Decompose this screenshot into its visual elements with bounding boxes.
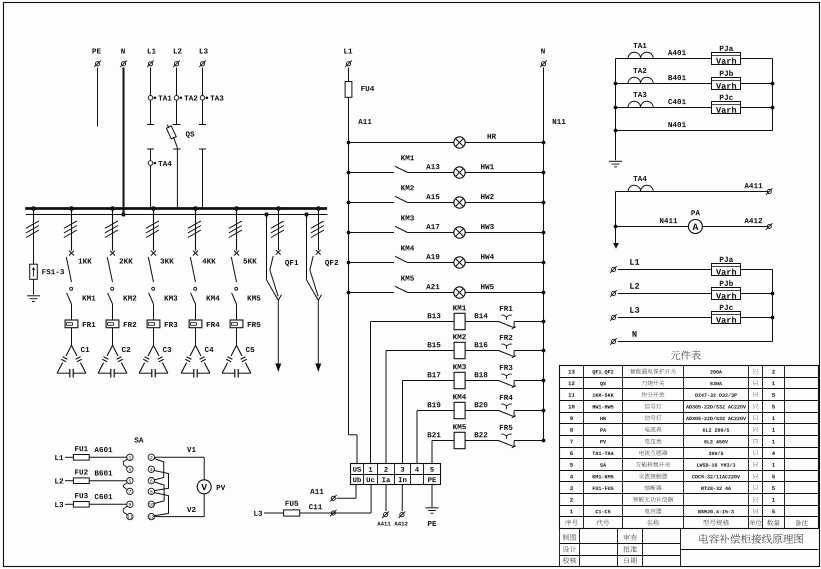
wire A601 <box>89 447 127 457</box>
node L1 terminal (control) <box>344 48 352 67</box>
isolation slashes branch 1 <box>64 221 77 238</box>
wire control left rail <box>349 97 358 464</box>
node A15 <box>426 194 439 199</box>
capacitor C3 (delta) <box>139 345 171 377</box>
wire control left rail upper <box>348 68 350 82</box>
node A411 terminal <box>766 188 773 195</box>
wire FR2 to rail <box>514 349 545 353</box>
ground (meter section) <box>609 161 622 167</box>
node L3 (SA feed) <box>55 502 63 507</box>
wire L3 lower <box>199 149 206 209</box>
node A19 <box>426 254 439 259</box>
wire L2 meter row <box>618 293 773 295</box>
lamp HW5 <box>454 284 494 298</box>
wire HW2 rung <box>347 201 546 205</box>
isolation slashes branch 4 <box>188 221 201 238</box>
junction QF2 phase on bus <box>316 206 321 211</box>
wire meter left rail (TA1-3) <box>614 59 618 161</box>
SA contact 4 <box>148 466 154 472</box>
energy meter PJb (panel) <box>712 280 741 299</box>
wire HW5 rung <box>347 291 546 295</box>
wire QF1 phase drop <box>278 209 280 251</box>
drawing title 电容补偿柜接线原理图 <box>699 534 803 544</box>
title block grid <box>560 529 819 567</box>
node C11 terminal <box>330 510 337 517</box>
neutral bus <box>26 214 328 216</box>
surge arrester FS1-3 <box>30 264 64 279</box>
thermal contact FR5 <box>499 425 516 448</box>
SA contact 5 <box>127 478 133 484</box>
node N terminal (control) <box>540 48 547 67</box>
lamp HW1 <box>454 164 494 178</box>
table row 10 <box>569 404 775 409</box>
terminal strip US/1-5 <box>351 464 441 485</box>
wire 5 to PE <box>431 485 433 508</box>
wire HW1 rung <box>347 171 546 175</box>
SA contact 3 <box>127 466 133 472</box>
wire L1 to FU1 <box>65 456 73 458</box>
node A21 <box>426 284 439 289</box>
wire B20 <box>465 402 498 410</box>
wire V1 <box>155 447 205 480</box>
wire branch 2 drop <box>112 209 114 251</box>
energy meter PJa (panel) <box>712 257 741 276</box>
SA link 6-10 <box>154 482 164 504</box>
lamp HW3 <box>454 224 494 238</box>
wire PE <box>97 68 99 127</box>
contact KM5 (lamp) <box>395 276 414 293</box>
node N11 label <box>553 119 566 124</box>
thermal relay FR3 <box>147 320 177 328</box>
merge arrowhead QF2 <box>315 295 321 301</box>
coil KM5 <box>453 424 466 449</box>
SA contact 10 <box>148 501 154 507</box>
node A11 label <box>358 119 371 124</box>
breaker QF1 <box>270 250 298 296</box>
junction 1KK on bus <box>69 206 74 211</box>
junction QF1 phase on bus <box>276 206 281 211</box>
node N terminal (meter) <box>610 331 636 345</box>
table row 2 <box>570 497 775 502</box>
junction 2KK on bus <box>110 206 115 211</box>
wire A401 <box>616 50 773 58</box>
wire L1 upper <box>150 68 152 96</box>
SA link 4-8 <box>154 471 168 491</box>
contactor contact KM5 <box>232 287 261 304</box>
wire L2 to bus <box>173 147 180 208</box>
wire V2 <box>155 494 205 517</box>
table header row <box>565 520 808 526</box>
isolation slashes branch 3 <box>146 221 159 238</box>
wire to C1 <box>71 328 73 346</box>
SA link 1-3 <box>123 459 127 467</box>
wire L2 to FU2 <box>65 480 73 482</box>
coil KM2 <box>453 334 466 359</box>
fuse FU2 <box>73 469 89 483</box>
wire B21 <box>428 432 454 464</box>
wire FR3 to rail <box>514 379 545 383</box>
wire B17 <box>403 372 455 464</box>
wire to C5 <box>236 328 238 346</box>
contact KM4 (lamp) <box>395 245 414 262</box>
wire to FR3 <box>153 304 155 320</box>
ground PE <box>426 508 439 526</box>
wire FS1-3 drop <box>33 209 35 265</box>
wire N411/A412 <box>616 218 769 226</box>
switch 5KK <box>231 251 256 282</box>
wire L3 meter row <box>618 317 773 319</box>
wire HR rung <box>347 141 546 145</box>
fuse FU1 <box>73 446 89 460</box>
wire L2 upper <box>176 68 178 96</box>
node A17 <box>426 224 439 229</box>
wire to C2 <box>112 328 114 346</box>
isolation slashes branch 2 <box>105 221 118 238</box>
thermal contact FR1 <box>499 306 516 329</box>
isolation slashes QF1 <box>271 221 284 238</box>
CT TA1 secondary <box>628 43 653 59</box>
wire B15 <box>386 342 454 464</box>
coil KM1 <box>453 305 466 330</box>
node L3 terminal (meter) <box>610 307 639 321</box>
table row 4 <box>570 473 775 478</box>
wire L3 upper <box>202 68 204 96</box>
node L2 terminal (meter) <box>610 283 639 297</box>
wire N (to N bus) <box>123 68 125 215</box>
capacitor C1 (delta) <box>57 345 89 377</box>
table row 5 <box>570 462 775 467</box>
node L1 terminal (meter) <box>610 259 639 273</box>
wire Ia to A411 <box>377 485 390 526</box>
wire A11 stub <box>310 485 356 499</box>
isolation slashes branch 5 <box>229 221 242 238</box>
energy meter PJc (panel) <box>712 305 741 324</box>
junction FS1-3 on bus <box>31 206 36 211</box>
wire B22 <box>465 432 498 440</box>
thermal relay FR4 <box>189 320 219 328</box>
wire A411 (TA4) <box>616 183 769 191</box>
wire control right rail <box>543 68 545 443</box>
fuse-switch QS <box>166 125 194 148</box>
contactor contact KM4 <box>191 287 220 304</box>
SA link 2-6 <box>154 459 163 480</box>
ammeter PA <box>688 210 702 233</box>
switch 3KK <box>148 251 173 282</box>
wire branch 3 drop <box>153 209 155 251</box>
coil KM3 <box>453 364 466 389</box>
CT TA1 primary <box>148 95 171 100</box>
fuse FU3 <box>73 493 89 507</box>
thermal contact FR2 <box>499 335 516 358</box>
thermal contact FR3 <box>499 365 516 388</box>
node L2 (SA feed) <box>55 478 63 483</box>
SA contact 2 <box>148 454 154 460</box>
energy meter PJc <box>712 95 741 114</box>
CT TA2 secondary <box>628 68 653 84</box>
capacitor C4 (delta) <box>181 345 213 377</box>
wire B601 <box>89 470 127 480</box>
CT TA4 primary <box>148 161 171 166</box>
energy meter PJb <box>712 70 741 89</box>
wire to FR4 <box>195 304 197 320</box>
coil KM4 <box>453 394 466 419</box>
wire HW3 rung <box>347 231 546 235</box>
wire QF1 neutral drop <box>267 215 277 299</box>
SA contact 8 <box>148 488 154 494</box>
table row 1 <box>570 508 775 513</box>
CT TA4 secondary <box>628 176 653 192</box>
fuse FU4 <box>345 82 374 98</box>
capacitor C5 (delta) <box>222 345 254 377</box>
wire to C3 <box>153 328 155 346</box>
isolation slashes FS <box>26 221 39 238</box>
switch 2KK <box>107 251 132 282</box>
wire FS to ground <box>33 279 35 294</box>
junction QF1 neutral on bus <box>264 212 268 216</box>
wire to C4 <box>195 328 197 346</box>
node A11 terminal <box>330 495 337 502</box>
SA link 5-7 <box>123 483 127 490</box>
wire L3 to FU3 <box>65 503 73 505</box>
wire L1 lower <box>147 149 154 161</box>
wire C601 <box>89 494 127 504</box>
node A13 <box>426 164 439 169</box>
wire L3 to FU5 <box>264 512 284 514</box>
SA link 9-11 <box>123 506 127 515</box>
outgoing feeder QF1 <box>275 300 281 372</box>
wire C11 <box>300 485 371 513</box>
wire branch 4 drop <box>195 209 197 251</box>
table row 11 <box>569 392 775 397</box>
node N terminal <box>120 48 127 67</box>
wire meter right rail (panel) <box>771 270 775 342</box>
switch 1KK <box>66 251 91 282</box>
lamp HW2 <box>454 194 494 208</box>
voltmeter PV <box>197 480 225 494</box>
selector switch SA label <box>134 437 143 442</box>
ground FS <box>27 296 40 302</box>
fuse FU5 <box>284 501 300 516</box>
wire FR5 to rail <box>514 439 545 443</box>
wire C401 <box>616 99 773 107</box>
wire HW4 rung <box>347 261 546 265</box>
wire to FR2 <box>112 304 114 320</box>
wire branch 5 drop <box>236 209 238 251</box>
node A412 terminal <box>766 223 773 230</box>
merge arrowhead QF1 <box>275 295 281 301</box>
table row 6 <box>570 450 775 455</box>
contactor contact KM1 <box>67 287 96 304</box>
node L2 terminal <box>173 48 181 67</box>
SA link 8-12 <box>154 493 168 516</box>
wire TA4 rail <box>614 192 618 244</box>
node L3 (fuse feed) <box>254 511 262 516</box>
contactor contact KM2 <box>108 287 137 304</box>
thermal relay FR5 <box>230 320 260 328</box>
wire B18 <box>465 372 498 380</box>
lamp HR <box>454 134 496 149</box>
junction 3KK on bus <box>151 206 156 211</box>
wire In to A412 <box>394 485 407 526</box>
table row 8 <box>570 427 775 432</box>
SA contact 12 <box>148 513 154 519</box>
junction 5KK on bus <box>234 206 239 211</box>
thermal relay FR2 <box>106 320 136 328</box>
wire QF2 neutral drop <box>307 215 317 299</box>
wire L2 mid <box>173 100 181 125</box>
table row 12 <box>569 380 775 386</box>
switch 4KK <box>190 251 215 282</box>
wire L1 mid <box>147 100 154 125</box>
SA contact 11 <box>127 513 133 519</box>
wire FR4 to rail <box>514 409 545 413</box>
wire meter right rail <box>771 59 775 131</box>
wire L1 meter row <box>618 269 773 271</box>
phase bus (thick) <box>25 207 327 210</box>
wire N meter row <box>618 341 773 343</box>
thermal relay FR1 <box>65 320 95 328</box>
wire to FR5 <box>236 304 238 320</box>
SA contact 7 <box>127 488 133 494</box>
breaker QF2 <box>310 250 338 296</box>
energy meter PJa <box>712 46 741 65</box>
outgoing feeder QF2 <box>315 300 321 372</box>
table row 9 <box>570 415 775 420</box>
wire B16 <box>465 342 498 350</box>
capacitor C2 (delta) <box>98 345 130 377</box>
title block labels <box>563 534 637 564</box>
contact KM2 (lamp) <box>395 185 414 202</box>
contact KM3 (lamp) <box>395 215 414 232</box>
contact KM1 (lamp) <box>395 155 414 172</box>
ground arrow (TA4) <box>613 243 619 249</box>
wire N401 <box>616 122 773 130</box>
junction N on neutral bus <box>121 212 125 216</box>
wire B13 <box>371 313 455 464</box>
wire B19 <box>417 402 454 464</box>
SA contact 1 <box>127 454 133 460</box>
table row 3 <box>570 485 775 490</box>
junction 4KK on bus <box>193 206 198 211</box>
wire FR1 to rail <box>514 320 545 324</box>
table title 元件表 <box>671 350 701 359</box>
component table grid <box>560 366 819 529</box>
CT TA3 secondary <box>628 92 653 108</box>
node PE terminal <box>92 48 100 67</box>
wire to FR1 <box>71 304 73 320</box>
wire L1 to bus <box>150 165 152 208</box>
wire branch 1 drop <box>71 209 73 251</box>
lamp HW4 <box>454 254 494 268</box>
wire B14 <box>465 313 498 321</box>
wire B401 <box>616 75 773 83</box>
table row 13 <box>569 369 775 375</box>
CT TA2 primary <box>174 95 197 100</box>
CT TA3 primary <box>200 95 223 100</box>
thermal contact FR4 <box>499 395 516 418</box>
isolation slashes QF2 <box>311 221 324 238</box>
SA contact 9 <box>127 501 133 507</box>
table row 7 <box>570 439 775 444</box>
node L1 terminal <box>147 48 156 67</box>
wire L3 mid <box>199 100 206 125</box>
wire QF2 phase drop <box>318 209 320 251</box>
SA contact 6 <box>148 478 154 484</box>
junction QF2 neutral on bus <box>304 212 308 216</box>
node L3 terminal <box>199 48 207 67</box>
contactor contact KM3 <box>149 287 178 304</box>
node L1 (SA feed) <box>55 455 63 460</box>
